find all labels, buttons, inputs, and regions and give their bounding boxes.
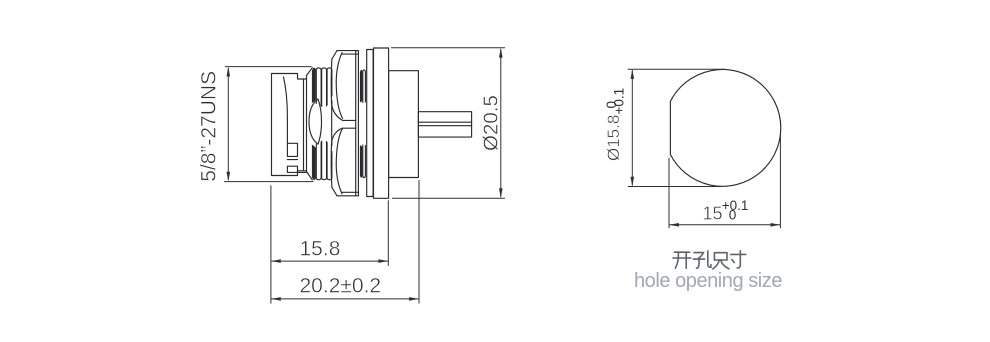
gasket plate [367,50,373,197]
text dia 15.8 +0.1/0 [604,88,626,161]
rear housing body [389,71,419,178]
extension line 15.8 right [387,200,389,266]
dimension line 15 [669,224,780,226]
hole dimension arrowheads [631,69,781,226]
extension line flange top [391,47,505,49]
svg-text:Ø15.8: Ø15.8 [604,115,623,161]
dimension line dia 15.8 [631,70,633,186]
extension line circle right [779,134,781,228]
svg-text:5/8”-27UNS: 5/8”-27UNS [198,71,221,182]
extension line left lower [270,185,272,303]
rear thread band bottom [360,145,366,178]
extension line thread top [225,66,312,68]
thread hatch top band [312,68,332,107]
extension line flat left [668,158,670,228]
rear thread band top [360,70,366,103]
svg-text:15: 15 [703,204,723,224]
extension line circle bottom [628,186,722,188]
dimension linework [224,48,505,304]
extension line flange bottom [392,197,505,199]
hanzi kong [693,251,711,268]
dimension line 20.2 [271,298,419,300]
panel flange plate [374,48,389,198]
hole dimension linework [628,69,781,228]
dimension line dia 20.5 [500,49,502,197]
extension line 20.2 right [418,180,420,304]
hanzi chi [713,253,729,269]
extension line circle top [628,68,726,70]
connector front plug body [272,74,307,176]
hanzi kai [673,252,691,268]
dimension line 15.8 [271,260,388,262]
svg-text:15.8: 15.8 [300,238,341,261]
dimension arrowheads left view [227,48,503,301]
threaded barrel edge [307,68,313,180]
solder contacts block [418,112,471,137]
plug insert notch rectangles [287,143,306,172]
svg-text:0: 0 [604,101,619,109]
sealing ring lens over threads [309,99,322,144]
svg-text:0: 0 [729,208,737,223]
caption kai kong chi cun (drawn strokes) [673,251,746,269]
svg-text:20.2±0.2: 20.2±0.2 [300,275,382,298]
svg-text:hole opening size: hole opening size [634,270,782,292]
coupling nut [331,51,358,196]
extension line thread bottom [224,181,314,183]
dimension line 5/8-27UNS [227,68,229,180]
svg-text:Ø20.5: Ø20.5 [480,95,503,151]
hole drawing circle with flat [670,70,780,187]
thread hatch bottom band [312,141,332,180]
hanzi cun [731,251,746,268]
